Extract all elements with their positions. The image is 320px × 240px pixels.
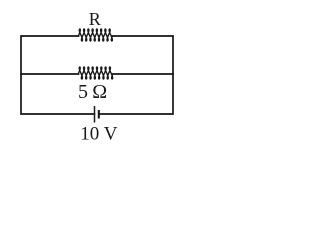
- svg-text:10 V: 10 V: [80, 124, 117, 145]
- svg-text:5: 5: [78, 81, 88, 103]
- svg-text:Ω: Ω: [92, 81, 107, 103]
- svg-text:R: R: [89, 9, 101, 29]
